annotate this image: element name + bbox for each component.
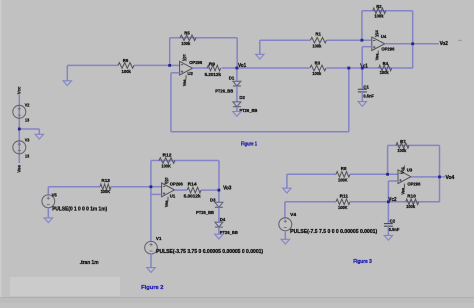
svg-text:100k: 100k <box>312 44 321 50</box>
svg-text:100k: 100k <box>380 70 389 76</box>
svg-text:100k: 100k <box>122 69 132 75</box>
svg-text:PT26_BB: PT26_BB <box>239 108 257 114</box>
svg-text:0.5nF: 0.5nF <box>363 94 374 100</box>
svg-text:D2: D2 <box>239 95 245 101</box>
svg-text:.tran 1m: .tran 1m <box>80 260 100 266</box>
svg-text:100K: 100K <box>338 205 348 211</box>
svg-text:V1: V1 <box>156 236 162 242</box>
svg-text:100K: 100K <box>338 178 348 184</box>
svg-text:Figure 3: Figure 3 <box>353 259 372 265</box>
svg-text:Vo3: Vo3 <box>223 186 231 192</box>
svg-text:100k: 100k <box>374 13 383 19</box>
svg-text:Vee: Vee <box>164 200 170 207</box>
svg-text:OP296: OP296 <box>170 182 183 188</box>
svg-text:R13: R13 <box>101 178 110 184</box>
svg-text:V5: V5 <box>52 192 57 198</box>
svg-text:R3: R3 <box>315 61 321 67</box>
svg-text:R11: R11 <box>340 193 349 199</box>
svg-text:OP296: OP296 <box>381 46 394 52</box>
svg-text:Vee: Vee <box>182 79 188 86</box>
svg-text:100k: 100k <box>406 204 415 210</box>
svg-text:Vcc: Vcc <box>374 30 380 37</box>
svg-text:R4: R4 <box>383 61 389 67</box>
svg-text:C1: C1 <box>363 85 369 91</box>
svg-text:PULSE(0 1 0 0 0 1m 1m): PULSE(0 1 0 0 0 1m 1m) <box>52 207 107 213</box>
svg-text:PT26_BB: PT26_BB <box>215 88 233 94</box>
svg-text:U2: U2 <box>187 71 193 77</box>
svg-text:R7: R7 <box>400 139 406 145</box>
svg-text:Vee: Vee <box>374 53 380 60</box>
svg-text:D3: D3 <box>210 198 216 204</box>
svg-text:Figure 2: Figure 2 <box>141 285 163 291</box>
svg-text:R10: R10 <box>407 193 416 199</box>
svg-text:D4: D4 <box>220 217 226 223</box>
svg-text:U4: U4 <box>381 34 387 40</box>
svg-text:PT26_BB: PT26_BB <box>196 210 214 216</box>
svg-text:Vcc: Vcc <box>16 86 22 94</box>
svg-text:Vcc: Vcc <box>400 167 406 174</box>
svg-text:100K: 100K <box>101 189 111 195</box>
svg-text:V3: V3 <box>25 137 30 143</box>
svg-text:V4: V4 <box>290 212 296 218</box>
svg-text:OP296: OP296 <box>189 60 202 66</box>
svg-text:0.5nF: 0.5nF <box>389 227 400 233</box>
svg-text:OP296: OP296 <box>407 181 420 187</box>
svg-text:Figure 1: Figure 1 <box>241 142 257 148</box>
svg-text:13: 13 <box>25 154 29 160</box>
svg-text:R2: R2 <box>376 4 382 10</box>
svg-text:Vee: Vee <box>400 188 406 195</box>
svg-text:R8: R8 <box>341 166 347 172</box>
svg-text:Vo4: Vo4 <box>446 175 455 181</box>
svg-text:100k: 100k <box>181 41 190 47</box>
svg-text:R12: R12 <box>163 152 172 158</box>
svg-text:5.2012k: 5.2012k <box>205 72 222 78</box>
svg-text:D1: D1 <box>229 75 235 81</box>
svg-text:R14: R14 <box>188 182 197 188</box>
svg-text:PULSE(-3.75 3.75 0 0.00005 0.0: PULSE(-3.75 3.75 0 0.00005 0.00005 0 0.0… <box>156 249 263 255</box>
svg-text:U1: U1 <box>170 194 176 200</box>
svg-text:100k: 100k <box>397 148 406 154</box>
svg-text:5.3012k: 5.3012k <box>184 194 201 200</box>
svg-text:Vcc: Vcc <box>182 54 188 61</box>
svg-text:R6: R6 <box>123 58 129 64</box>
svg-text:13: 13 <box>25 118 29 124</box>
svg-text:U3: U3 <box>407 167 413 173</box>
svg-text:Vee: Vee <box>16 165 22 173</box>
svg-text:Vo2: Vo2 <box>440 41 448 47</box>
svg-text:R9: R9 <box>209 61 216 67</box>
svg-text:C2: C2 <box>390 218 396 224</box>
svg-text:PULSE(-7.5 7.5 0 0 0 0.00005 0: PULSE(-7.5 7.5 0 0 0 0.00005 0.0001) <box>290 229 377 235</box>
svg-text:100k: 100k <box>312 71 321 77</box>
svg-text:R1: R1 <box>315 31 321 37</box>
svg-text:V2: V2 <box>25 102 30 108</box>
svg-text:R5: R5 <box>184 31 190 37</box>
svg-text:100K: 100K <box>161 164 171 170</box>
